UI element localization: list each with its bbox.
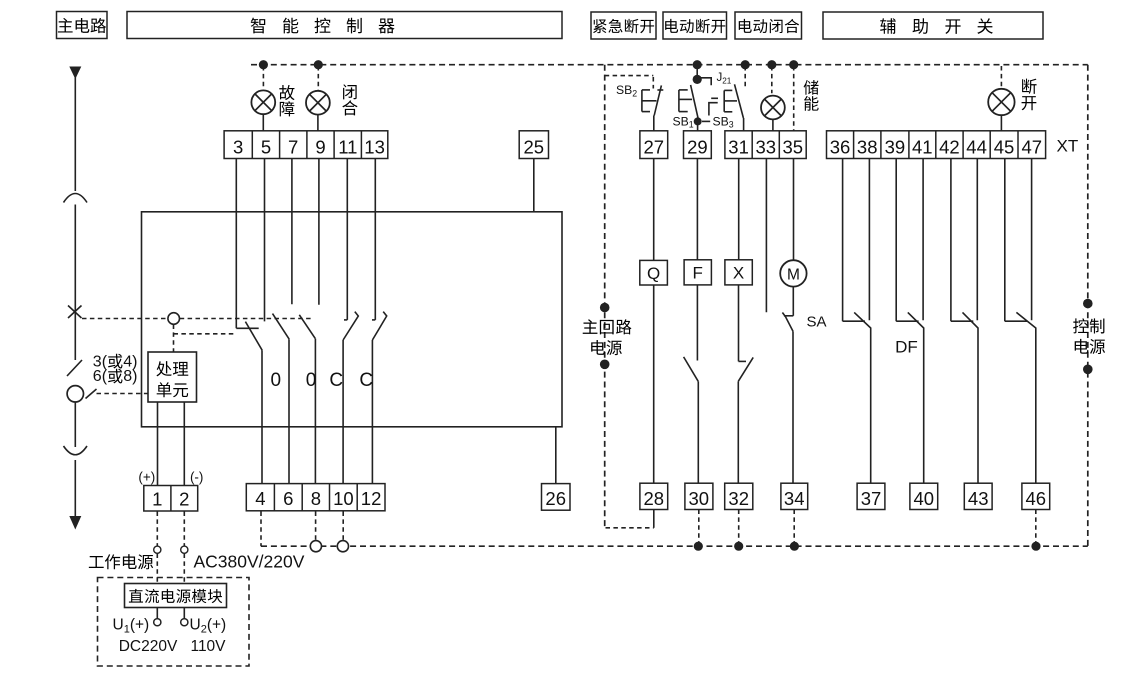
terminal 40 xyxy=(910,483,938,509)
contact K3 blade (open) xyxy=(299,315,315,339)
contact K1 fixed bar xyxy=(236,327,258,329)
svg-text:0: 0 xyxy=(306,370,317,391)
wire: main line lower xyxy=(74,402,76,447)
svg-text:4: 4 xyxy=(255,488,265,509)
DF contact 2 right wire xyxy=(922,159,924,321)
break mark upper xyxy=(64,194,88,203)
stub bus to J21 node xyxy=(696,65,698,80)
svg-text:M: M xyxy=(787,267,800,284)
junction dot on bus (fault lamp) xyxy=(259,60,268,69)
svg-text:28: 28 xyxy=(644,488,665,509)
pushbutton SB3 bracket xyxy=(723,90,725,111)
wire: contact K5 to terminal 12 xyxy=(371,340,373,484)
svg-text:31: 31 xyxy=(728,136,749,157)
dashed lead below terminal 4 xyxy=(260,512,262,547)
label 控制电源 xyxy=(1073,318,1105,354)
dashed lead below terminal 32 xyxy=(738,510,740,547)
terminal 29 xyxy=(684,131,712,159)
svg-text:27: 27 xyxy=(644,136,665,157)
wire: fault lamp to terminal 5 xyxy=(262,114,264,131)
main circuit outgoing arrow xyxy=(69,516,81,530)
svg-text:29: 29 xyxy=(687,136,708,157)
svg-text:33: 33 xyxy=(756,136,777,157)
contact blade below X xyxy=(738,357,753,381)
svg-text:8: 8 xyxy=(311,488,321,509)
wire stub below terminal 33 xyxy=(765,159,767,313)
main circuit incoming arrow xyxy=(69,67,81,80)
wire: main line middle xyxy=(74,205,76,361)
wire: X to contact (with foot) xyxy=(738,285,740,362)
bottom dashed bus xyxy=(261,545,1088,547)
svg-text:11: 11 xyxy=(338,136,357,157)
svg-text:30: 30 xyxy=(689,488,710,509)
label box: intelligent controller 智能控制器 xyxy=(127,12,562,39)
terminal 30 xyxy=(685,483,713,509)
phase circle B on bottom bus xyxy=(337,541,348,552)
label 储能 energy storage xyxy=(804,80,819,111)
svg-text:36: 36 xyxy=(830,136,851,157)
label box: electric close 电动闭合 xyxy=(735,12,802,39)
break mark lower xyxy=(64,446,88,455)
dashed lead below terminal 1 xyxy=(156,512,158,546)
dot upper (main loop power) xyxy=(600,303,610,313)
dashed branch to SB2 xyxy=(605,75,654,77)
wire: closed lamp to terminal 9 xyxy=(317,115,319,131)
dot upper (control power) xyxy=(1083,299,1093,309)
svg-text:3: 3 xyxy=(233,136,243,157)
wire: contact to terminal 32 xyxy=(737,381,739,483)
wire: terminal 31 to X xyxy=(738,159,740,260)
svg-text:C: C xyxy=(329,370,343,391)
svg-text:U1(+): U1(+) xyxy=(113,617,150,636)
svg-text:C: C xyxy=(359,370,373,391)
dashed link: breaker to pivot circle xyxy=(82,318,168,320)
svg-text:7: 7 xyxy=(288,136,298,157)
contact K4 blade (C) xyxy=(343,312,358,340)
wire: main line bottom xyxy=(74,460,76,517)
svg-text:45: 45 xyxy=(994,136,1015,157)
phase circle A on bottom bus xyxy=(310,541,321,552)
node dot J21 branch xyxy=(693,75,702,84)
wire: SA to terminal 34 xyxy=(792,331,794,483)
wire: Q to terminal 28 xyxy=(653,285,655,483)
wire from terminal 5 xyxy=(264,159,266,322)
dashed lead below terminal 10 xyxy=(342,512,344,541)
dashed lead to DC module (2) xyxy=(183,554,185,584)
stub to U1 circle xyxy=(156,608,158,619)
label 3(or4) 6(or8) xyxy=(93,353,138,385)
slash tick on main line xyxy=(67,360,82,376)
terminal row 4,6,8,10,12 xyxy=(246,484,385,511)
svg-text:25: 25 xyxy=(524,136,545,157)
pushbutton SB1 blade (NO) xyxy=(691,85,699,119)
svg-text:110V: 110V xyxy=(190,638,226,655)
dashed lead below terminal 30 xyxy=(698,510,700,547)
svg-text:XT: XT xyxy=(1057,137,1079,156)
wire elbow to J21 contact xyxy=(697,78,711,85)
pushbutton SB1 bracket xyxy=(678,90,680,112)
contact K5 blade (C) xyxy=(372,312,386,340)
svg-text:26: 26 xyxy=(545,488,566,509)
svg-text:6(: 6( xyxy=(93,368,108,385)
top dashed control bus xyxy=(251,64,1088,66)
dashed drop to SB3 xyxy=(744,66,746,89)
svg-text:0: 0 xyxy=(271,370,282,391)
svg-text:DF: DF xyxy=(895,338,918,357)
dashed lead below terminal 46 xyxy=(1035,510,1037,547)
DF contact 2 blade xyxy=(908,312,924,483)
terminal 34 xyxy=(781,483,808,509)
link dash to SB3 label xyxy=(702,120,710,122)
fault lamp HL1 xyxy=(251,90,275,114)
terminal 46 xyxy=(1022,483,1050,509)
contact blade below F xyxy=(684,357,699,381)
closed lamp HL2 xyxy=(306,91,330,115)
wire: terminal 29 to F xyxy=(696,159,698,260)
right dashed control power line xyxy=(1087,65,1089,547)
wire: controller to terminal 26 xyxy=(555,427,557,484)
svg-text:37: 37 xyxy=(861,488,882,509)
svg-text:39: 39 xyxy=(885,136,906,157)
svg-text:SA: SA xyxy=(807,313,827,330)
svg-text:F: F xyxy=(693,264,703,283)
label box: electric open 电动断开 xyxy=(663,12,727,39)
coil X xyxy=(725,260,752,285)
terminal row 3,5,7,9,11,13 xyxy=(224,131,388,159)
svg-text:46: 46 xyxy=(1026,488,1047,509)
wire from terminal 11 xyxy=(346,159,348,320)
connector circle below terminal 2 xyxy=(181,546,188,553)
DF contact 4 blade xyxy=(1016,312,1035,483)
contact K2 blade (open) xyxy=(273,314,290,340)
dashed lead below terminal 34 xyxy=(793,510,795,547)
label box: main circuit 主电路 xyxy=(57,12,108,39)
svg-text:Q: Q xyxy=(647,264,660,283)
stub to U2 circle xyxy=(183,608,185,619)
svg-text:34: 34 xyxy=(784,488,805,509)
breaker X mark on main line xyxy=(68,306,82,319)
label box: auxiliary switch 辅助开关 xyxy=(823,12,1043,39)
current transformer circle xyxy=(67,386,83,402)
controller outline box xyxy=(142,212,563,427)
junction dot on bus (storage lamp) xyxy=(767,60,776,69)
terminal row 31,33,35 xyxy=(725,131,806,159)
svg-text:9: 9 xyxy=(315,136,325,157)
junction dot on bus (motor) xyxy=(789,60,798,69)
svg-text:(+): (+) xyxy=(138,470,155,485)
J21 contact bar xyxy=(711,97,718,99)
svg-text:42: 42 xyxy=(939,136,960,157)
svg-text:AC380V/220V: AC380V/220V xyxy=(194,552,305,572)
mechanical pivot circle xyxy=(168,313,180,325)
svg-text:DC220V: DC220V xyxy=(119,638,178,655)
dashed link: to contact 1 xyxy=(174,333,237,335)
dashed drop to storage lamp xyxy=(771,66,773,93)
wire: terminal 25 to controller xyxy=(533,159,535,212)
wire: contact K1 to terminal 4 xyxy=(261,350,263,483)
junction dot on bus (closed lamp) xyxy=(314,60,323,69)
svg-text:(-): (-) xyxy=(190,470,204,485)
DF contact 3 left wire xyxy=(950,159,952,322)
wire: processing unit to terminal 2 xyxy=(183,402,185,486)
label 工作电源 working power xyxy=(89,556,104,568)
pushbutton SB2 blade (NC) xyxy=(654,85,661,115)
junction dot on bus (SB3) xyxy=(741,60,750,69)
svg-text:38: 38 xyxy=(857,136,878,157)
dot lower (main loop power) xyxy=(600,360,610,370)
wire from terminal 13 xyxy=(374,159,376,320)
wire from terminal 3 xyxy=(235,159,237,329)
svg-text:12: 12 xyxy=(361,488,382,509)
DF contact 1 left wire xyxy=(842,159,844,322)
pushbutton SB3 blade (NO) xyxy=(735,84,744,118)
DF contact 3 right wire xyxy=(976,159,978,321)
dashed drop to closed lamp xyxy=(317,66,319,90)
wire: SB3 to terminal 31 xyxy=(743,118,745,131)
svg-text:43: 43 xyxy=(968,488,989,509)
dashed drop to open lamp xyxy=(1000,66,1002,89)
dashed lead below terminal 8 xyxy=(315,512,317,541)
dashed drop to fault lamp xyxy=(262,66,264,90)
processing unit box 处理单元 xyxy=(148,352,197,402)
main loop power dashed line xyxy=(604,65,606,528)
wire: processing unit to terminal 1 xyxy=(157,402,159,486)
label 断开 open xyxy=(1022,79,1037,111)
motor M xyxy=(780,260,806,286)
wire: terminal 35 to motor xyxy=(793,159,795,262)
storage lamp xyxy=(761,96,785,120)
wire: SB1 to terminal 29 xyxy=(697,121,699,130)
svg-text:5: 5 xyxy=(261,136,271,157)
DC power module box 直流电源模块 xyxy=(125,584,227,608)
wire: open lamp to terminal 45 xyxy=(1000,115,1002,131)
switch SA blade xyxy=(782,313,793,332)
wire: contact K3 to terminal 8 xyxy=(314,339,316,484)
coil F xyxy=(684,260,711,285)
wire: SB2 to terminal 27 xyxy=(653,116,655,131)
wire: storage lamp to terminal 33 xyxy=(772,119,774,130)
svg-text:44: 44 xyxy=(966,136,987,157)
DF contact 1 right wire xyxy=(868,159,870,321)
DF contact 3 blade xyxy=(963,312,979,483)
wire: F to contact xyxy=(696,285,698,361)
terminal 25 xyxy=(519,131,548,159)
terminal 27 xyxy=(640,131,668,159)
junction dot on bottom bus (30) xyxy=(694,542,703,551)
pushbutton SB2 bracket xyxy=(641,90,643,112)
svg-text:6: 6 xyxy=(283,488,293,509)
dashed drop to terminal 35 xyxy=(793,66,795,131)
dashed elbow to terminal 28 xyxy=(606,527,654,529)
label 闭合 closed xyxy=(342,84,357,115)
svg-text:X: X xyxy=(733,264,744,283)
coil Q xyxy=(640,260,668,285)
svg-text:2: 2 xyxy=(179,488,189,509)
dashed linkage to contact blades xyxy=(180,318,312,320)
label box: emergency open 紧急断开 xyxy=(591,12,656,39)
wire: terminal 27 to Q xyxy=(653,159,655,261)
wire: motor to SA (with foot) xyxy=(792,287,794,316)
U1 terminal circle xyxy=(154,619,161,626)
wire from terminal 7 xyxy=(291,159,293,305)
terminal 32 xyxy=(725,483,753,509)
terminal 26 xyxy=(542,484,571,511)
DF contact 1 blade xyxy=(854,312,871,483)
DF contact 2 left wire xyxy=(895,159,897,322)
junction dot on bottom bus (34) xyxy=(790,542,799,551)
DF contact 4 right wire xyxy=(1031,159,1033,321)
wire: main line upper xyxy=(74,76,76,191)
svg-text:35: 35 xyxy=(783,136,804,157)
stub below terminal 28 xyxy=(653,510,655,528)
svg-text:1: 1 xyxy=(152,488,162,509)
connector circle below terminal 1 xyxy=(154,546,161,553)
U2 terminal circle xyxy=(181,619,188,626)
terminal 37 xyxy=(857,483,885,509)
svg-text:8): 8) xyxy=(123,368,137,385)
contact labels 0 0 C C xyxy=(271,370,374,391)
open lamp xyxy=(988,89,1014,115)
wire from terminal 9 xyxy=(318,159,320,305)
dashed lead below terminal 2 xyxy=(183,512,185,546)
label 故障 fault xyxy=(279,85,294,116)
label 主回路电源 xyxy=(583,319,632,355)
dashed lead to DC module (1) xyxy=(156,554,158,584)
terminal row 1,2 xyxy=(144,486,198,512)
svg-text:41: 41 xyxy=(912,136,933,157)
junction dot on bus (SB1) xyxy=(693,60,702,69)
wire: contact K4 to terminal 10 xyxy=(342,340,344,484)
slash tick right of CT xyxy=(86,389,97,399)
junction dot on bottom bus (32) xyxy=(734,542,743,551)
svg-text:47: 47 xyxy=(1022,136,1043,157)
dashed link: pivot down xyxy=(173,325,175,352)
junction dot on bottom bus (46) xyxy=(1031,542,1040,551)
dashed link: CT to processing unit xyxy=(97,393,149,395)
terminal row 36-47 xyxy=(827,131,1046,159)
dot lower (control power) xyxy=(1083,365,1093,375)
DC power module dashed box xyxy=(98,578,250,667)
DF contact 4 left wire xyxy=(1004,159,1006,322)
svg-text:40: 40 xyxy=(914,488,935,509)
terminal 28 xyxy=(640,483,668,509)
svg-text:13: 13 xyxy=(364,136,385,157)
contact K1 blade (closed) xyxy=(245,322,262,351)
svg-text:32: 32 xyxy=(728,488,749,509)
wire: contact to terminal 30 xyxy=(697,381,699,483)
svg-text:10: 10 xyxy=(333,488,354,509)
junction dot below SB1 xyxy=(694,117,702,125)
wire: contact K2 to terminal 6 xyxy=(288,339,290,483)
terminal 43 xyxy=(964,483,992,509)
svg-text:U2(+): U2(+) xyxy=(190,617,227,636)
J21 contact elbow xyxy=(709,103,718,116)
